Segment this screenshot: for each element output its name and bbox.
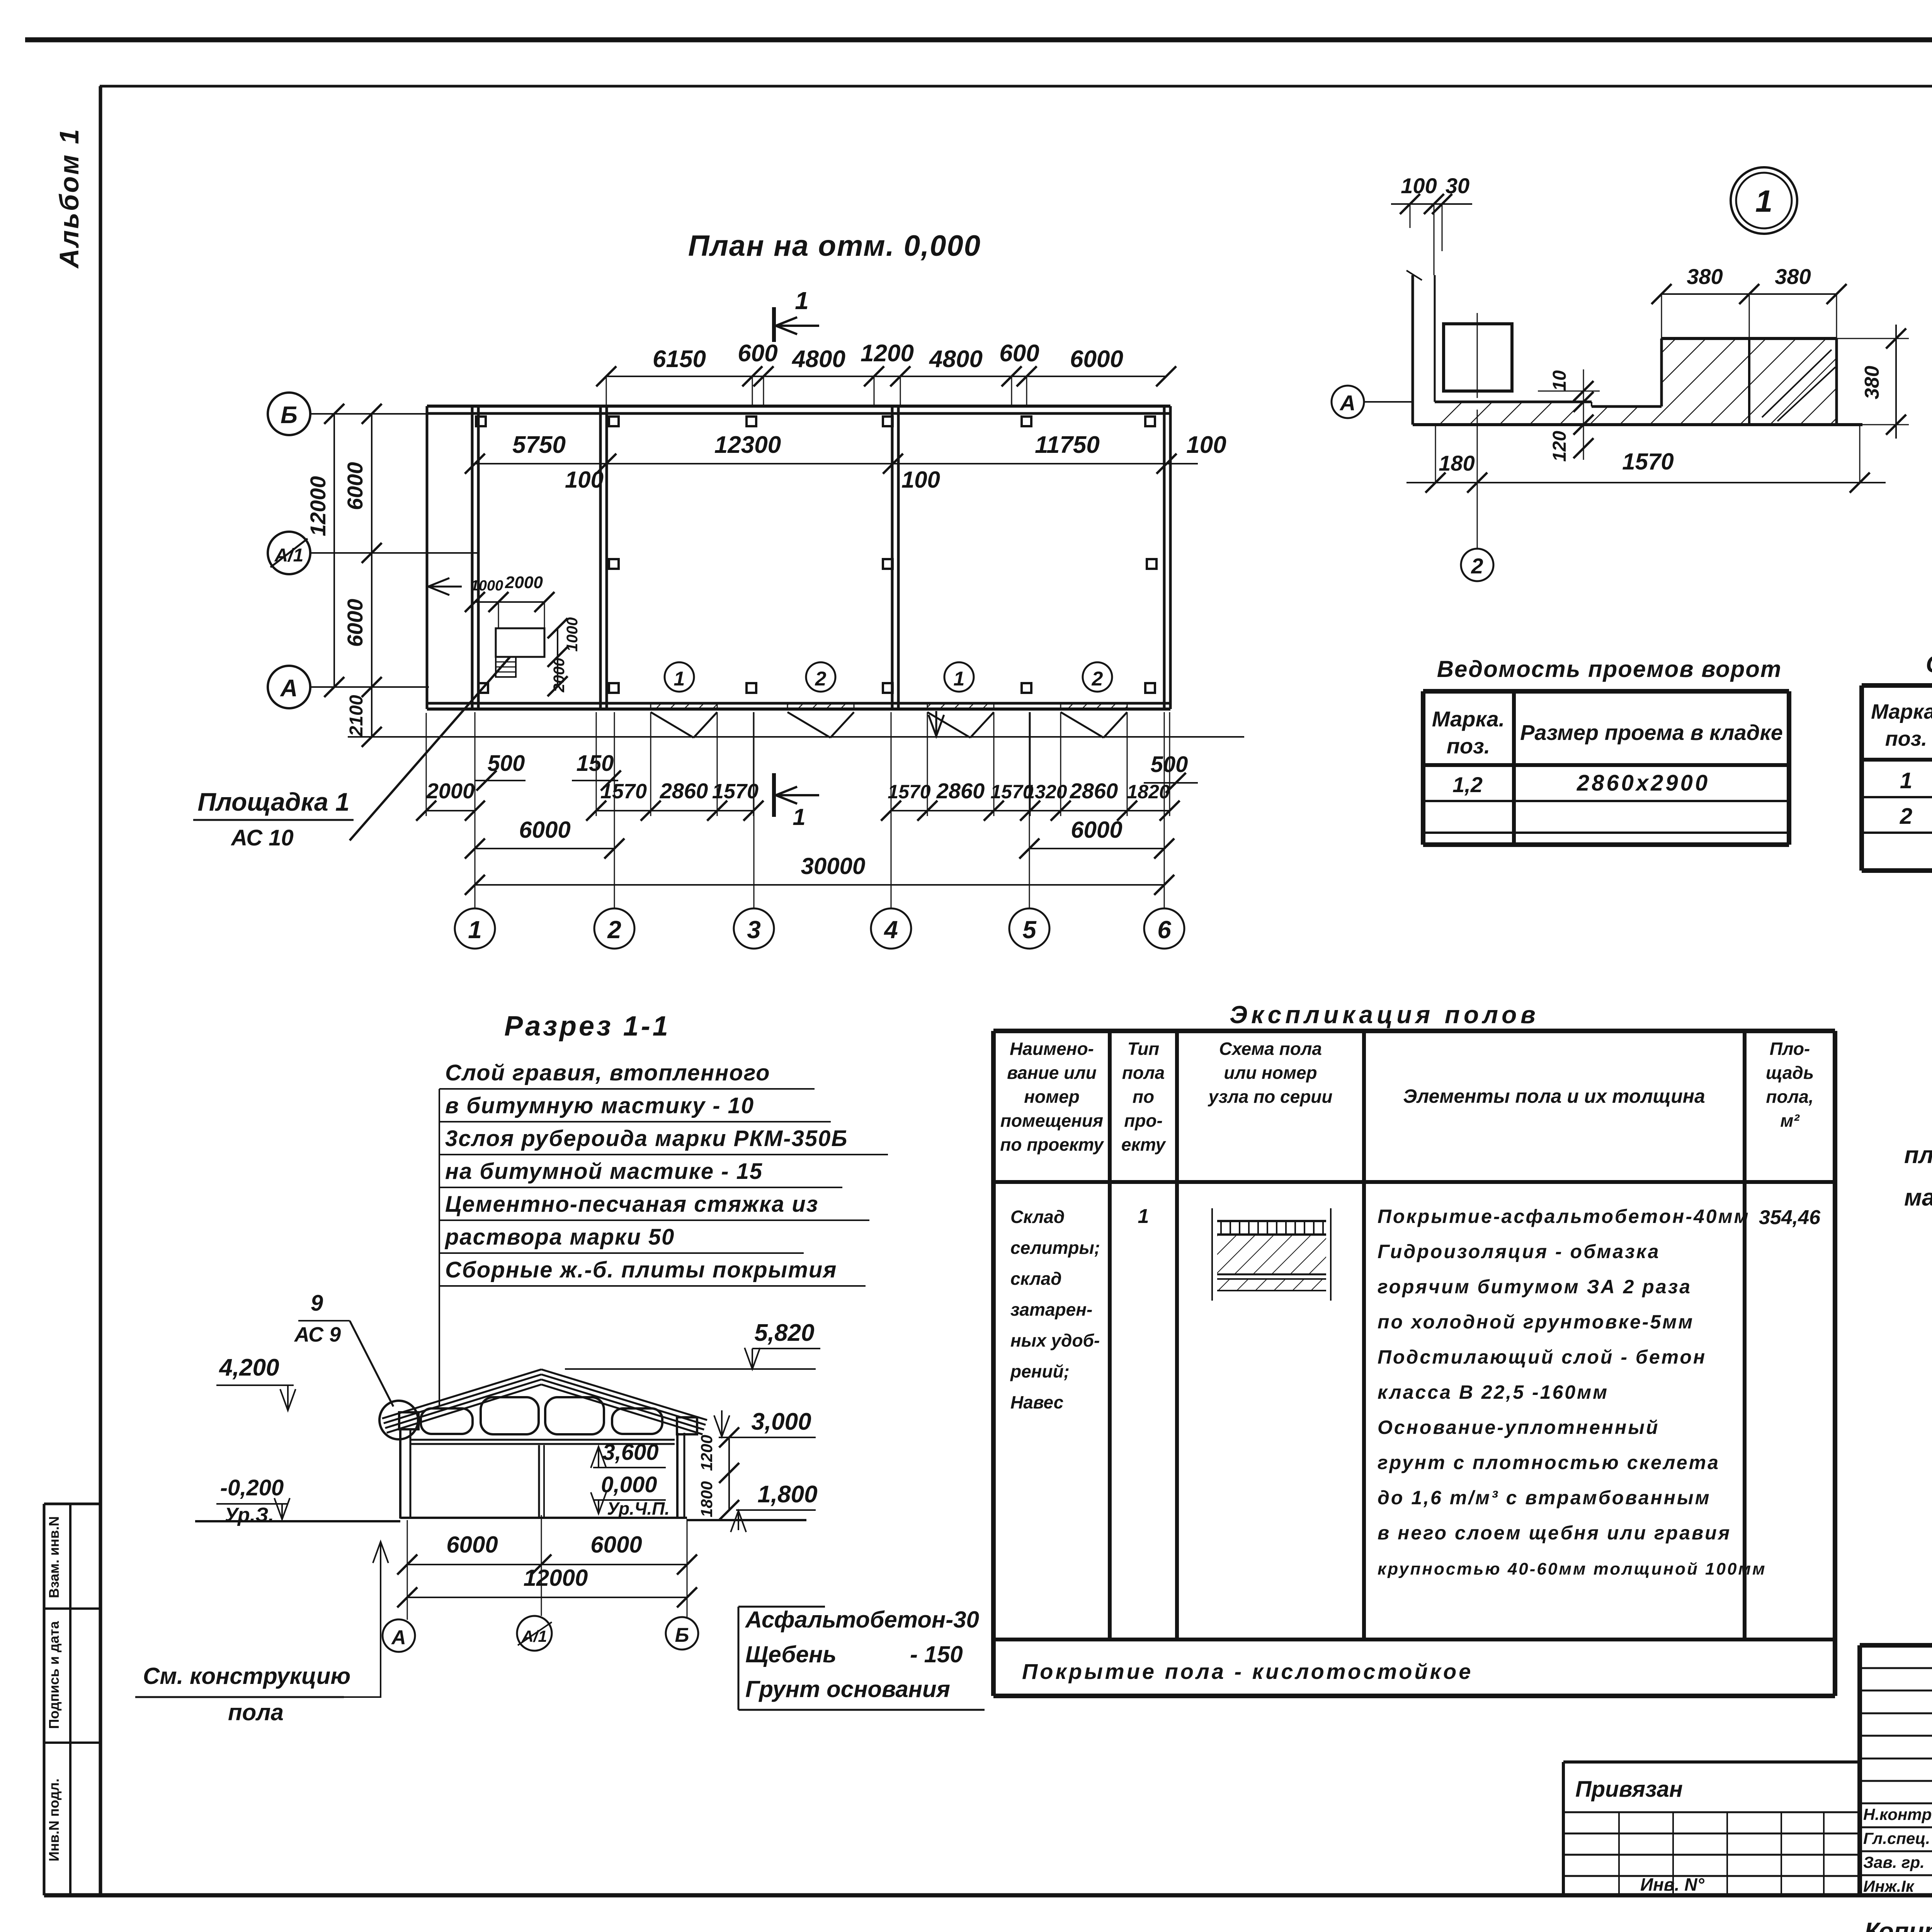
svg-text:6000: 6000 <box>446 1532 498 1558</box>
svg-text:Подпись и дата: Подпись и дата <box>46 1621 62 1729</box>
svg-text:поз.: поз. <box>1447 734 1490 758</box>
svg-text:крупностью 40-60мм толщиной 10: крупностью 40-60мм толщиной 100мм <box>1378 1560 1767 1578</box>
svg-text:селитры;: селитры; <box>1010 1238 1100 1258</box>
svg-text:1: 1 <box>1755 184 1773 218</box>
svg-text:А: А <box>1339 391 1355 415</box>
svg-text:10: 10 <box>1549 370 1570 391</box>
svg-text:Инв. N°: Инв. N° <box>1640 1874 1704 1895</box>
svg-text:6000: 6000 <box>343 462 367 510</box>
svg-text:5750: 5750 <box>512 432 566 458</box>
svg-text:Копировал:: Копировал: <box>1864 1917 1932 1932</box>
svg-text:Грунт основания: Грунт основания <box>745 1676 950 1702</box>
svg-text:в него слоем щебня или гравия: в него слоем щебня или гравия <box>1378 1522 1731 1544</box>
svg-text:2860: 2860 <box>1070 779 1118 803</box>
svg-text:Экспликация полов: Экспликация полов <box>1230 1001 1539 1029</box>
svg-text:500: 500 <box>488 751 525 776</box>
svg-text:600: 600 <box>999 340 1039 367</box>
svg-text:2: 2 <box>1092 668 1103 690</box>
svg-text:Инж.Iк: Инж.Iк <box>1863 1877 1915 1895</box>
svg-text:узла по серии: узла по серии <box>1207 1087 1332 1107</box>
svg-text:6000: 6000 <box>343 599 367 647</box>
svg-text:Размер проема в кладке: Размер проема в кладке <box>1520 720 1783 745</box>
svg-text:1: 1 <box>1900 768 1912 793</box>
svg-text:А/1: А/1 <box>274 545 304 566</box>
svg-text:1: 1 <box>1138 1205 1149 1228</box>
svg-text:А: А <box>391 1626 406 1649</box>
svg-text:1: 1 <box>795 287 809 315</box>
svg-text:500: 500 <box>1151 752 1188 777</box>
svg-text:5: 5 <box>1022 916 1037 944</box>
svg-text:пола,: пола, <box>1766 1087 1813 1107</box>
svg-text:Склад: Склад <box>1010 1207 1065 1227</box>
svg-text:1570: 1570 <box>888 781 930 803</box>
svg-text:4: 4 <box>883 916 898 944</box>
svg-text:2860: 2860 <box>936 779 985 803</box>
svg-text:Б: Б <box>281 402 298 429</box>
svg-text:2000: 2000 <box>551 658 568 693</box>
svg-text:Привязан: Привязан <box>1575 1777 1683 1802</box>
svg-text:на битумной мастике - 15: на битумной мастике - 15 <box>445 1159 763 1184</box>
svg-text:Марка,: Марка, <box>1871 700 1932 723</box>
svg-text:Подстилающий слой - бетон: Подстилающий слой - бетон <box>1378 1346 1706 1368</box>
svg-text:1320: 1320 <box>1024 781 1067 803</box>
svg-text:Асфальтобетон-30: Асфальтобетон-30 <box>745 1607 979 1633</box>
svg-text:-0,200: -0,200 <box>220 1475 284 1500</box>
svg-text:4800: 4800 <box>929 346 983 372</box>
svg-text:по: по <box>1133 1087 1154 1107</box>
svg-text:Тип: Тип <box>1128 1039 1160 1059</box>
svg-text:12000: 12000 <box>524 1565 588 1591</box>
svg-text:Разрез 1-1: Разрез 1-1 <box>504 1011 670 1042</box>
svg-text:АС 9: АС 9 <box>294 1323 341 1346</box>
svg-text:Наимено-: Наимено- <box>1010 1039 1094 1059</box>
svg-text:9: 9 <box>311 1291 323 1316</box>
svg-text:поз.: поз. <box>1885 727 1927 750</box>
svg-text:1570: 1570 <box>712 780 759 803</box>
svg-text:затарен-: затарен- <box>1010 1299 1092 1320</box>
svg-text:горячим битумом ЗА 2 раза: горячим битумом ЗА 2 раза <box>1378 1276 1692 1298</box>
svg-text:100: 100 <box>901 467 940 493</box>
svg-text:1,800: 1,800 <box>757 1481 817 1508</box>
svg-text:номер: номер <box>1024 1087 1080 1107</box>
svg-text:до 1,6 т/м³ с втрамбованным: до 1,6 т/м³ с втрамбованным <box>1378 1487 1711 1509</box>
svg-text:2000: 2000 <box>426 779 475 803</box>
svg-text:Навес: Навес <box>1010 1392 1063 1412</box>
svg-text:1570: 1570 <box>1622 449 1673 474</box>
svg-text:100: 100 <box>1186 432 1226 458</box>
svg-text:по холодной грунтовке-5мм: по холодной грунтовке-5мм <box>1378 1311 1694 1333</box>
svg-text:1: 1 <box>793 804 805 830</box>
svg-text:по проекту: по проекту <box>1000 1134 1104 1155</box>
svg-text:1,2: 1,2 <box>1452 772 1483 797</box>
svg-text:Пло-: Пло- <box>1770 1039 1810 1059</box>
svg-text:Основание-уплотненный: Основание-уплотненный <box>1378 1417 1659 1438</box>
svg-text:11750: 11750 <box>1035 432 1100 458</box>
svg-text:А: А <box>280 675 298 702</box>
svg-text:Ур.Ч.П.: Ур.Ч.П. <box>607 1498 670 1519</box>
svg-text:120: 120 <box>1549 431 1570 462</box>
svg-text:1200: 1200 <box>861 340 914 367</box>
svg-text:2: 2 <box>1471 554 1483 578</box>
svg-text:1570: 1570 <box>600 780 647 803</box>
svg-text:600: 600 <box>738 340 777 367</box>
svg-text:6000: 6000 <box>519 817 570 843</box>
svg-text:рений;: рений; <box>1010 1361 1070 1381</box>
svg-text:Щебень: Щебень <box>745 1641 837 1667</box>
svg-text:плиток (ГОСТ 961-89) h=300мм: плиток (ГОСТ 961-89) h=300мм на горячей … <box>1904 1142 1932 1168</box>
svg-text:Схема пола: Схема пола <box>1219 1039 1322 1059</box>
svg-text:Слой гравия, втопленного: Слой гравия, втопленного <box>445 1060 770 1085</box>
svg-text:Спецификация элементов заполне: Спецификация элементов заполнения проемо… <box>1926 651 1932 678</box>
svg-text:Гидроизоляция - обмазка: Гидроизоляция - обмазка <box>1378 1241 1660 1262</box>
svg-text:6000: 6000 <box>590 1532 642 1558</box>
svg-text:6000: 6000 <box>1071 817 1122 843</box>
svg-text:Покрытие-асфальтобетон-40мм: Покрытие-асфальтобетон-40мм <box>1378 1206 1750 1227</box>
svg-text:3,000: 3,000 <box>751 1408 811 1435</box>
svg-text:- 150: - 150 <box>910 1641 963 1667</box>
svg-text:12300: 12300 <box>714 432 781 458</box>
svg-text:вание или: вание или <box>1007 1063 1097 1083</box>
svg-text:4,200: 4,200 <box>218 1354 279 1381</box>
svg-text:2000: 2000 <box>505 573 543 592</box>
svg-text:2: 2 <box>607 916 621 944</box>
svg-text:380: 380 <box>1775 264 1811 289</box>
svg-text:4800: 4800 <box>791 346 845 372</box>
svg-text:1820: 1820 <box>1127 781 1170 803</box>
svg-text:1800: 1800 <box>697 1481 716 1517</box>
svg-text:Марка.: Марка. <box>1432 707 1505 731</box>
svg-text:ных удоб-: ных удоб- <box>1010 1330 1100 1350</box>
svg-text:класса В 22,5 -160мм: класса В 22,5 -160мм <box>1378 1381 1609 1403</box>
svg-text:щадь: щадь <box>1766 1063 1814 1083</box>
svg-text:раствора марки 50: раствора марки 50 <box>444 1225 675 1250</box>
svg-text:АС 10: АС 10 <box>230 825 294 850</box>
svg-text:Цементно-песчаная стяжка из: Цементно-песчаная стяжка из <box>445 1192 818 1217</box>
svg-text:Гл.спец.: Гл.спец. <box>1863 1829 1930 1847</box>
svg-text:Альбом 1: Альбом 1 <box>54 128 84 269</box>
svg-text:2860х2900: 2860х2900 <box>1577 770 1710 796</box>
svg-text:1: 1 <box>468 916 482 944</box>
svg-text:380: 380 <box>1687 264 1723 289</box>
svg-text:100: 100 <box>565 467 604 493</box>
svg-text:3,600: 3,600 <box>602 1440 658 1465</box>
svg-text:2: 2 <box>1900 804 1912 829</box>
svg-text:180: 180 <box>1439 451 1475 475</box>
svg-text:Элементы пола и их толщина: Элементы пола и их толщина <box>1403 1085 1705 1107</box>
svg-text:0,000: 0,000 <box>601 1472 657 1497</box>
svg-text:380: 380 <box>1861 366 1883 400</box>
svg-text:12000: 12000 <box>306 476 330 536</box>
svg-text:А/1: А/1 <box>521 1627 547 1645</box>
svg-text:1: 1 <box>674 668 685 690</box>
svg-text:екту: екту <box>1121 1134 1167 1155</box>
svg-text:6000: 6000 <box>1070 346 1123 372</box>
svg-text:3слоя рубероида марки РКМ-350Б: 3слоя рубероида марки РКМ-350Б <box>445 1126 848 1151</box>
svg-text:в битумную мастику - 10: в битумную мастику - 10 <box>445 1093 754 1118</box>
svg-text:См. конструкцию: См. конструкцию <box>143 1663 350 1689</box>
svg-text:5,820: 5,820 <box>754 1320 814 1346</box>
svg-text:План на отм. 0,000: План на отм. 0,000 <box>688 230 981 262</box>
svg-text:1000: 1000 <box>471 578 503 594</box>
svg-text:2860: 2860 <box>660 779 708 803</box>
svg-text:м²: м² <box>1780 1111 1800 1131</box>
svg-text:Покрытие пола - кислотостойко: Покрытие пола - кислотостойкое <box>1022 1659 1473 1684</box>
svg-text:6: 6 <box>1157 916 1171 944</box>
svg-text:про-: про- <box>1124 1111 1163 1131</box>
svg-text:Взам. инв.N: Взам. инв.N <box>46 1516 62 1598</box>
svg-text:Б: Б <box>675 1624 689 1646</box>
svg-text:6150: 6150 <box>653 346 706 372</box>
svg-text:1: 1 <box>954 668 965 690</box>
svg-text:Н.контр.: Н.контр. <box>1863 1805 1932 1823</box>
svg-text:30000: 30000 <box>801 853 866 879</box>
svg-text:Ведомость проемов ворот: Ведомость проемов ворот <box>1437 656 1782 682</box>
svg-text:пола: пола <box>228 1699 284 1725</box>
svg-text:Зав. гр.: Зав. гр. <box>1863 1853 1925 1871</box>
svg-text:354,46: 354,46 <box>1759 1206 1821 1229</box>
svg-text:Инв.N подл.: Инв.N подл. <box>46 1779 62 1862</box>
svg-text:30: 30 <box>1446 173 1469 198</box>
svg-text:пола: пола <box>1122 1063 1165 1083</box>
svg-text:3: 3 <box>747 916 761 944</box>
svg-text:Сборные ж.-б. плиты покрытия: Сборные ж.-б. плиты покрытия <box>445 1257 837 1282</box>
svg-text:грунт с плотностью скелета: грунт с плотностью скелета <box>1378 1452 1720 1473</box>
svg-text:мастике.: мастике. <box>1904 1184 1932 1211</box>
svg-text:Ур.З.: Ур.З. <box>224 1504 274 1526</box>
svg-text:помещения: помещения <box>1000 1111 1103 1131</box>
svg-text:2100: 2100 <box>346 695 367 736</box>
svg-text:2: 2 <box>815 668 827 690</box>
svg-text:1200: 1200 <box>697 1435 716 1471</box>
svg-text:150: 150 <box>577 751 614 776</box>
svg-text:или номер: или номер <box>1224 1063 1317 1083</box>
svg-text:1000: 1000 <box>564 617 581 652</box>
svg-text:100: 100 <box>1401 173 1437 198</box>
svg-text:Площадка 1: Площадка 1 <box>197 787 349 816</box>
svg-text:склад: склад <box>1010 1269 1062 1289</box>
